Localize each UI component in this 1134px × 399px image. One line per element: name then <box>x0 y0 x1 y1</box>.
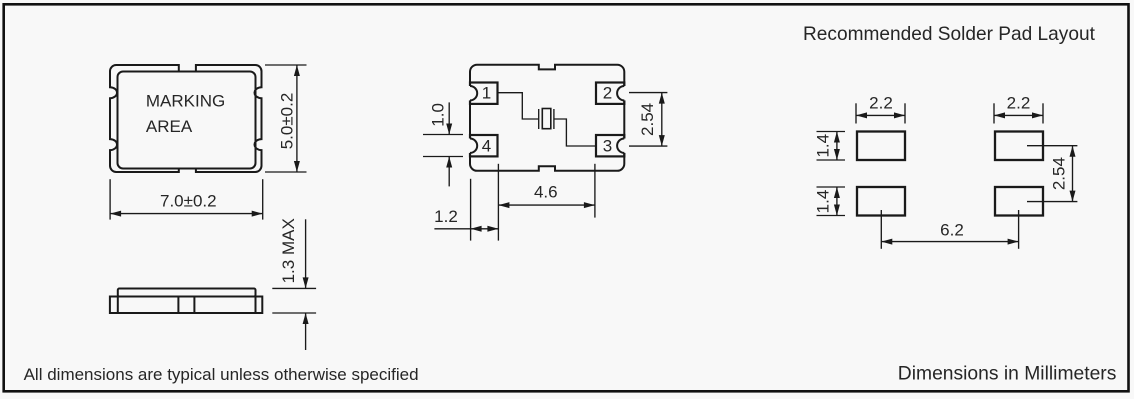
arrowheads 1.4 lower <box>834 187 840 198</box>
pad 1 <box>470 83 498 104</box>
dim 1.0 ticks <box>423 134 463 136</box>
svg-text:6.2: 6.2 <box>940 221 964 240</box>
side view lid <box>118 289 256 297</box>
dim 2.54 right arrow line <box>1072 146 1074 202</box>
side view base <box>110 297 262 314</box>
dim 1.4 upper ticks <box>817 131 846 133</box>
arrowheads 1.4 upper <box>834 132 840 143</box>
svg-text:1.3 MAX: 1.3 MAX <box>279 218 298 283</box>
notch erase patches <box>466 86 474 100</box>
arrowheads 4.6 <box>498 202 509 208</box>
svg-text:2.54: 2.54 <box>1049 157 1068 190</box>
svg-text:AREA: AREA <box>146 117 193 136</box>
pad 3 <box>596 135 624 156</box>
package outer outline with castellation notches <box>110 65 262 172</box>
arrowheads 2.54 right <box>1070 146 1076 157</box>
dim 5.0±0.2 extension ticks <box>265 64 307 66</box>
arrowheads 7.0 dim <box>110 211 121 217</box>
solder pad bottom-right <box>995 187 1043 216</box>
crystal left plate <box>538 109 540 129</box>
svg-text:2: 2 <box>603 84 612 103</box>
arrowheads 1.3 MAX <box>303 277 309 288</box>
wire pin1 to crystal <box>498 93 539 119</box>
dim 2.54 ticks (middle) <box>629 92 667 94</box>
svg-text:1.2: 1.2 <box>434 207 458 226</box>
dim 1.4 lower ticks <box>817 186 846 188</box>
svg-text:All dimensions are typical unl: All dimensions are typical unless otherw… <box>24 365 419 384</box>
pad 4 castellation arc <box>470 139 477 153</box>
dim 1.4 lower arrow line <box>836 187 838 216</box>
dim 1.0 arrow lines <box>448 102 450 134</box>
svg-text:Recommended Solder Pad Layout: Recommended Solder Pad Layout <box>803 24 1096 45</box>
svg-text:3: 3 <box>603 137 612 156</box>
dim 7.0±0.2 arrow line <box>110 213 263 215</box>
solder pad bottom-left <box>857 187 905 216</box>
dim 1.3 MAX arrow lines <box>305 219 307 288</box>
svg-text:1.0: 1.0 <box>428 103 447 127</box>
arrowheads 5.0 dim <box>294 65 300 76</box>
pad 2 castellation arc <box>617 86 624 100</box>
dim 1.2 extension line <box>470 179 472 241</box>
arrowheads 1.0 <box>446 124 452 135</box>
svg-text:1.4: 1.4 <box>814 190 833 214</box>
dim 2.2 right ticks <box>993 103 995 123</box>
dim 4.6 arrow line <box>498 204 595 206</box>
dim 6.2 extension lines <box>880 210 882 249</box>
svg-text:5.0±0.2: 5.0±0.2 <box>277 93 296 150</box>
dim 2.2 left arrow line <box>856 114 905 116</box>
svg-text:7.0±0.2: 7.0±0.2 <box>160 192 217 211</box>
svg-text:1: 1 <box>482 84 491 103</box>
svg-text:2.54: 2.54 <box>638 103 657 136</box>
svg-text:4: 4 <box>482 137 491 156</box>
arrowheads 6.2 <box>881 239 892 245</box>
dim 2.2 left ticks <box>855 103 857 123</box>
crystal body <box>542 109 551 129</box>
dim 1.3 MAX ticks <box>272 287 316 289</box>
dim 2.2 right arrow line <box>994 114 1043 116</box>
crystal right plate <box>553 109 555 129</box>
svg-text:Dimensions in Millimeters: Dimensions in Millimeters <box>898 363 1117 384</box>
pad 2 <box>596 83 624 104</box>
package inner outline (marking area) <box>118 72 256 169</box>
dim 7.0±0.2 extension lines <box>109 179 111 219</box>
side view base divider lines <box>117 297 119 314</box>
dim 1.2 arrow line <box>434 228 498 230</box>
dim 2.54 arrow line (middle) <box>661 93 663 147</box>
pad 3 castellation arc <box>617 139 624 153</box>
dim 5.0±0.2 arrow line <box>296 65 298 172</box>
svg-text:1.4: 1.4 <box>814 134 833 158</box>
dim 6.2 arrow line <box>881 241 1018 243</box>
svg-text:2.2: 2.2 <box>1007 94 1031 113</box>
pad 1 castellation arc <box>470 86 477 100</box>
arrowheads 1.2 <box>471 226 482 232</box>
package bottom-view outline <box>470 65 624 171</box>
wire crystal to pin3 <box>554 119 596 146</box>
svg-text:MARKING: MARKING <box>146 91 225 110</box>
arrowheads 2.2 right <box>994 112 1005 118</box>
dim 1.4 upper arrow line <box>836 132 838 161</box>
dim 2.54 right leader lines <box>1027 145 1077 147</box>
svg-text:2.2: 2.2 <box>869 94 893 113</box>
arrowheads 2.54 middle <box>659 93 665 104</box>
solder pad top-right <box>995 132 1043 161</box>
solder pad top-left <box>857 132 905 161</box>
dim 4.6 extension lines <box>497 164 499 241</box>
arrowheads 2.2 left <box>856 112 867 118</box>
pad 4 <box>470 135 498 156</box>
svg-text:4.6: 4.6 <box>534 183 558 202</box>
